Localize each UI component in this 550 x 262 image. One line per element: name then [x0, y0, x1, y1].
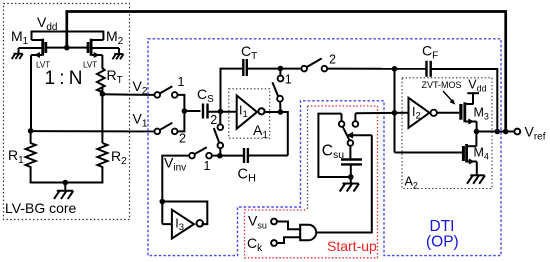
svg-text:M4: M4 [474, 146, 489, 162]
feedback wire top [67, 12, 506, 132]
wire summing node vertical [394, 69, 396, 153]
junction bottom [63, 180, 69, 186]
capacitor CS [203, 104, 208, 119]
capacitor Csu [341, 160, 362, 165]
ground core [54, 183, 73, 200]
svg-text:R1: R1 [8, 147, 24, 166]
M2 source arrow [94, 52, 100, 58]
M3 source arrow [468, 119, 474, 125]
Vsu terminal [271, 219, 277, 225]
wire R2 top riser [101, 94, 103, 143]
bottom rail [31, 172, 103, 183]
svg-text:RT: RT [107, 67, 123, 86]
CSU frame wire [318, 114, 350, 177]
Vdd rail [32, 32, 104, 41]
capacitor CF [427, 61, 431, 77]
M4 source arrow [469, 159, 475, 165]
svg-text:1: 1 [204, 159, 211, 173]
switch 1 CT-to-A1out [272, 69, 283, 113]
wire M4 gate [395, 152, 462, 154]
CSU switch left throw [341, 114, 343, 122]
svg-text:Vdd: Vdd [468, 78, 486, 94]
A2 box [402, 78, 492, 189]
AND output wire [316, 135, 372, 232]
resistor R1 [26, 131, 36, 172]
wire Csu bottom [350, 164, 352, 177]
svg-text:ZVT-MOS: ZVT-MOS [422, 80, 462, 90]
svg-text:CS: CS [197, 86, 214, 105]
start-up box left black dotted edge [307, 106, 309, 210]
junction I3 input [160, 199, 166, 205]
svg-text:Vdd: Vdd [37, 14, 57, 33]
inverter I1 [237, 96, 265, 129]
Vref terminal [514, 129, 520, 135]
svg-text:CH: CH [238, 167, 256, 185]
wire CF right to Vref [431, 69, 498, 132]
svg-text:Vsu: Vsu [248, 213, 267, 231]
junction A1 input [218, 109, 224, 115]
wire V1 [31, 130, 155, 132]
transistor M1 [19, 39, 46, 131]
CSU switch right throw [354, 113, 356, 121]
svg-text:M2: M2 [106, 28, 124, 47]
switch 2 CS-to-CH [214, 112, 223, 156]
svg-text:2: 2 [210, 113, 217, 127]
AND gate [300, 225, 316, 240]
wire I2 out to M3 gate [437, 112, 459, 114]
wire Vinv left [162, 156, 189, 225]
svg-text:Csu: Csu [322, 143, 344, 162]
A1 output wire [264, 112, 288, 156]
A1 box [229, 89, 270, 138]
junction CT right [278, 66, 284, 72]
Vref wire [477, 131, 515, 133]
transistor M2 [88, 39, 119, 66]
junction CH left [217, 153, 223, 159]
ground M1 bulk [12, 54, 23, 59]
inverter I3 [172, 210, 203, 239]
transistor M3 [461, 93, 479, 131]
transistor M4 [463, 132, 476, 176]
svg-text:A2: A2 [405, 175, 418, 191]
wire switches to CS [178, 95, 201, 131]
SC-amp and DTI blue dashed region [148, 39, 501, 256]
svg-text:R2: R2 [111, 148, 127, 167]
wire common to Csu [349, 146, 351, 160]
junction CS left [182, 108, 188, 114]
junction CF feedback [495, 129, 501, 135]
wire up to CT line [221, 69, 244, 112]
node V2 [100, 91, 106, 97]
control arrow to CSU switch [350, 134, 372, 136]
wire Ck to gate [277, 237, 300, 243]
svg-text:2: 2 [179, 132, 186, 146]
start-up red dotted region [245, 106, 378, 258]
resistor RT [97, 66, 105, 94]
output node junction [474, 129, 480, 135]
wire RT to V2 node [101, 88, 103, 94]
junction A1 out [278, 109, 284, 115]
junction gate node [64, 45, 70, 51]
CSU switch common [348, 140, 354, 146]
svg-text:Start-up: Start-up [327, 238, 377, 254]
LV-BG core box [4, 4, 130, 220]
switch 1 on V2 [155, 86, 178, 98]
CSU switch lever [343, 127, 350, 141]
svg-text:M3: M3 [474, 106, 489, 122]
node V1 [28, 128, 34, 134]
wire V2 [102, 93, 154, 96]
wire CH right [248, 155, 288, 157]
svg-text:CF: CF [422, 43, 438, 62]
ground M4 [467, 175, 485, 184]
inverter I2 [409, 98, 437, 128]
wire CS to A1 input [208, 111, 237, 113]
wire top line to CF [327, 68, 426, 70]
resistor R2 [97, 143, 107, 172]
junction I2 input [392, 110, 398, 116]
svg-text:2: 2 [329, 53, 336, 67]
gate node wire [47, 47, 88, 49]
ground Csu [340, 177, 359, 192]
svg-text:Vinv: Vinv [164, 154, 186, 173]
M1 source arrow [34, 52, 40, 58]
ground M2 bulk [112, 54, 123, 59]
wire Vinv node [212, 155, 244, 157]
svg-text:DTI: DTI [430, 218, 455, 235]
switch 2 top [301, 58, 327, 71]
svg-text:1 : N: 1 : N [45, 68, 83, 89]
I3 feedback loop [162, 202, 207, 225]
junction CF left [392, 66, 398, 72]
svg-text:LVT: LVT [83, 61, 97, 70]
svg-text:(OP): (OP) [426, 234, 459, 251]
svg-text:1: 1 [178, 75, 185, 89]
ZVT arrow [443, 91, 453, 102]
svg-text:1: 1 [285, 73, 292, 87]
wire CT to switch2 [247, 68, 302, 70]
switch 2 on V1 [155, 123, 178, 135]
wire CSU to I2 input [355, 112, 408, 114]
junction top feedback [503, 129, 509, 135]
svg-text:V1: V1 [133, 111, 148, 130]
wire Vsu to gate [277, 222, 300, 230]
capacitor CT [243, 59, 247, 76]
capacitor CH [244, 148, 248, 163]
Ck terminal [271, 240, 277, 246]
svg-text:Vref: Vref [525, 124, 546, 143]
switch 1 Vinv [189, 147, 212, 158]
svg-text:Ck: Ck [247, 235, 263, 254]
svg-text:LV-BG core: LV-BG core [5, 200, 77, 216]
junction Csu ground [348, 174, 354, 180]
svg-text:M1: M1 [11, 28, 29, 47]
